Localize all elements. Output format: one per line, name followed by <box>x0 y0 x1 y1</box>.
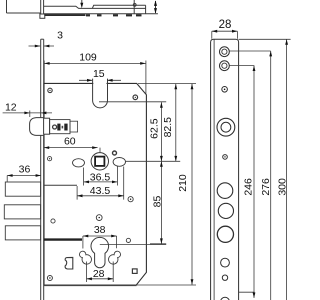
boss 1 <box>86 14 90 16</box>
boss 5 <box>136 14 142 16</box>
arrowheads main view <box>7 45 193 285</box>
svg-text:36: 36 <box>19 163 31 175</box>
dim 276 arrow <box>269 51 272 56</box>
ext line case bottom right <box>136 284 196 286</box>
deadbolt prong 3 <box>5 226 40 240</box>
oval hole right <box>113 158 125 167</box>
svg-text:43.5: 43.5 <box>90 185 111 197</box>
dim 12 line <box>3 112 52 114</box>
svg-text:246: 246 <box>243 178 255 196</box>
leader from hole 1 <box>230 50 271 52</box>
dim 36 line <box>7 175 41 177</box>
svg-text:62.5: 62.5 <box>148 118 160 139</box>
dim 3 lines <box>29 45 55 47</box>
svg-text:109: 109 <box>79 52 97 64</box>
ext line from cylinder center <box>100 244 166 246</box>
latch detail bar 3 <box>64 124 67 131</box>
dim 38 arrows <box>83 235 117 238</box>
faceplate inner bend line <box>213 40 215 300</box>
hole 6 <box>217 183 233 199</box>
case bottom edge emphasis <box>44 284 137 286</box>
svg-text:15: 15 <box>93 68 105 80</box>
latch tail <box>70 121 78 132</box>
cylinder hole 4 <box>217 118 235 136</box>
svg-text:3: 3 <box>57 30 63 42</box>
dim 15 arrows <box>87 79 113 82</box>
square hole bottom-right <box>132 269 137 274</box>
ext line case top right <box>138 82 196 84</box>
handle follower circle <box>91 153 108 170</box>
faceplate outline <box>211 39 239 300</box>
svg-text:82.5: 82.5 <box>162 117 174 138</box>
lock body bottom line <box>44 13 158 15</box>
boss 4 <box>126 14 132 16</box>
latch detail bar 1 <box>57 124 60 131</box>
hole 11 partial <box>221 297 230 300</box>
deadbolt prong 2 <box>4 205 40 219</box>
svg-text:38: 38 <box>94 224 106 236</box>
dim 109 ext lines <box>44 61 146 95</box>
hole 7 <box>218 203 233 218</box>
dim 300 arrow <box>285 39 288 44</box>
faceplate front view left edge <box>40 39 42 300</box>
latch spring circle <box>53 125 57 129</box>
dim 28 top ext lines <box>212 31 238 39</box>
dim 60 arrows <box>44 146 98 149</box>
thickness dimension double arrow <box>155 1 157 13</box>
hole right of 43.5 <box>128 197 133 202</box>
dim 246 arrows <box>253 66 256 298</box>
latch bolt side view bottom <box>7 12 41 14</box>
hole 10 <box>222 275 227 280</box>
ext line from slot bottom <box>99 101 166 103</box>
latch bolt side view left edge <box>6 0 8 13</box>
slot erase patch <box>93 82 106 101</box>
euro cylinder hole <box>91 237 109 267</box>
small hole 5 <box>223 155 228 160</box>
boss 3 <box>113 14 118 16</box>
dim 36.5 arrows <box>84 181 118 184</box>
dim 12 arrows <box>24 112 46 115</box>
dim 38 ext lines <box>83 236 117 249</box>
dim 85 arrows <box>160 161 163 244</box>
svg-text:60: 60 <box>64 136 76 148</box>
svg-text:36.5: 36.5 <box>90 172 111 184</box>
body right end inner line <box>133 0 135 14</box>
dim 12 ext <box>29 111 31 118</box>
dim 43.5 ext lines <box>77 167 124 200</box>
dim 28 bottom ext lines <box>87 262 114 283</box>
dim 38 line <box>83 235 117 237</box>
dim 43.5 line <box>77 195 124 197</box>
svg-text:300: 300 <box>277 178 289 196</box>
dim 28 top arrows <box>212 30 238 33</box>
latch bolt head <box>30 118 44 136</box>
screw hole 2 <box>220 61 230 71</box>
notched hole left of cylinder <box>65 257 73 269</box>
small hole 3 <box>222 87 228 93</box>
screw hole top-right <box>133 95 138 100</box>
dim 28 top line <box>212 30 238 32</box>
svg-text:276: 276 <box>260 178 272 196</box>
dim 36 arrows <box>7 174 41 177</box>
dim 43.5 arrows <box>77 194 124 197</box>
svg-text:210: 210 <box>177 174 189 192</box>
ext line 85 bottom <box>150 243 166 245</box>
dim 62.5 and 85 line <box>160 102 162 244</box>
screw hole 1 <box>220 47 230 57</box>
dim 82.5 line <box>175 84 177 161</box>
screw hole mid-left <box>48 157 52 161</box>
small pin circle <box>133 4 136 7</box>
RIGHT FACEPLATE VIEW <box>211 39 239 300</box>
dim 109 arrows <box>44 62 145 65</box>
deadbolt top edge <box>44 184 77 186</box>
faceplate front view right edge <box>43 39 45 300</box>
dim 36.5 line <box>84 181 118 183</box>
dim 109 line <box>44 62 145 64</box>
screw hole top-left <box>48 88 52 92</box>
teardrop hole left <box>79 251 91 264</box>
svg-text:12: 12 <box>5 102 17 114</box>
lock body raised step <box>92 5 145 8</box>
dim 28 bottom line <box>87 278 114 280</box>
hole 8 <box>217 226 233 242</box>
svg-text:28: 28 <box>93 268 105 280</box>
svg-text:85: 85 <box>151 196 163 208</box>
latch detail bar 2 <box>62 126 64 129</box>
dim 36 ext <box>6 176 8 182</box>
latch mechanism block <box>50 120 70 134</box>
dim 3 arrows <box>35 45 50 48</box>
dim 276 line <box>270 51 272 300</box>
DIMENSIONS main view <box>3 46 196 285</box>
dimension texts main view <box>5 30 189 281</box>
lock case outline <box>44 83 146 285</box>
dim 62.5 arrows <box>160 102 163 161</box>
dim 60 ext <box>99 148 101 153</box>
hole 9 <box>221 258 230 267</box>
plate top ext line <box>239 38 291 40</box>
dim 15 lines <box>79 79 121 81</box>
boss 2 <box>97 14 102 16</box>
dim 82.5 arrows <box>174 84 177 161</box>
dim 300 line <box>286 39 288 300</box>
leader arrow pointing down at body notch <box>81 0 83 4</box>
dim 60 line <box>44 147 98 149</box>
hole right of cylinder <box>126 238 130 242</box>
teardrop hole right <box>109 251 121 264</box>
oval hole left <box>73 159 85 167</box>
dim 246 line <box>253 66 255 298</box>
lock body top profile <box>44 6 146 8</box>
ext line at 292 <box>239 291 255 293</box>
faceplate top cap <box>41 38 44 40</box>
leader from hole 2 <box>230 65 255 67</box>
screw hole bottom-left <box>47 276 52 281</box>
latch bolt through plate <box>44 118 50 134</box>
deadbolt bottom thick edge <box>44 238 82 240</box>
body right end edge <box>145 5 147 13</box>
dim 210 line <box>191 84 193 285</box>
handle follower square <box>95 157 104 166</box>
dim 36.5 ext lines <box>84 167 118 186</box>
small hole upper-right of follower <box>113 151 117 155</box>
faceplate foot <box>40 14 45 18</box>
lock body dark band <box>44 14 85 16</box>
hole lower-left <box>51 219 55 223</box>
faceplate side view <box>40 0 42 14</box>
dim 28 bottom arrows <box>87 277 114 280</box>
hole below follower <box>96 215 102 221</box>
top guide slot <box>93 79 108 108</box>
svg-text:28: 28 <box>219 19 232 31</box>
dim 210 arrows <box>191 84 194 285</box>
ext line from follower center <box>126 160 181 162</box>
deadbolt prong 1 <box>5 182 40 196</box>
